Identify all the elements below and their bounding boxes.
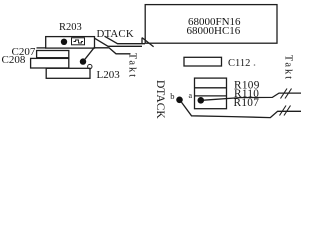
wire diagonal to node (85, 47, 95, 60)
wire (37, 47, 47, 49)
svg-text:C112: C112 (228, 58, 250, 69)
wire from node b to right edge (182, 102, 302, 117)
capacitor C208 (31, 58, 69, 68)
svg-text:R203: R203 (59, 22, 82, 33)
svg-text:DTACK: DTACK (154, 80, 166, 119)
svg-text:L203: L203 (97, 69, 121, 81)
svg-text:R107: R107 (234, 97, 260, 109)
node b dot (176, 97, 183, 104)
svg-text:68000HC16: 68000HC16 (187, 25, 241, 37)
op IC 68000 box (145, 5, 277, 44)
node a dot (198, 97, 205, 104)
wire jog lower (95, 48, 131, 54)
inductor L203 body (46, 68, 90, 78)
node circle (88, 64, 92, 68)
svg-text:b: b (170, 91, 174, 101)
svg-text:DTACK: DTACK (97, 28, 134, 40)
chip corner diagonal (142, 38, 154, 47)
chip corner stub (141, 38, 143, 44)
resistor R203 (46, 37, 95, 49)
svg-text:Takt: Takt (283, 55, 294, 81)
svg-text:Takt: Takt (127, 53, 138, 79)
svg-text:C208: C208 (2, 54, 26, 66)
resistor network box R109 R110 R107 (195, 78, 227, 109)
wire break marks upper (281, 89, 292, 99)
capacitor C112 box (184, 57, 222, 66)
wire break marks lower (280, 106, 291, 116)
wire jog upper (105, 36, 146, 44)
svg-text:a: a (189, 91, 193, 100)
capacitor C207 (37, 51, 69, 58)
wire from node a to right edge (204, 93, 302, 100)
wire jog mid (95, 38, 143, 46)
node dot (80, 58, 86, 64)
